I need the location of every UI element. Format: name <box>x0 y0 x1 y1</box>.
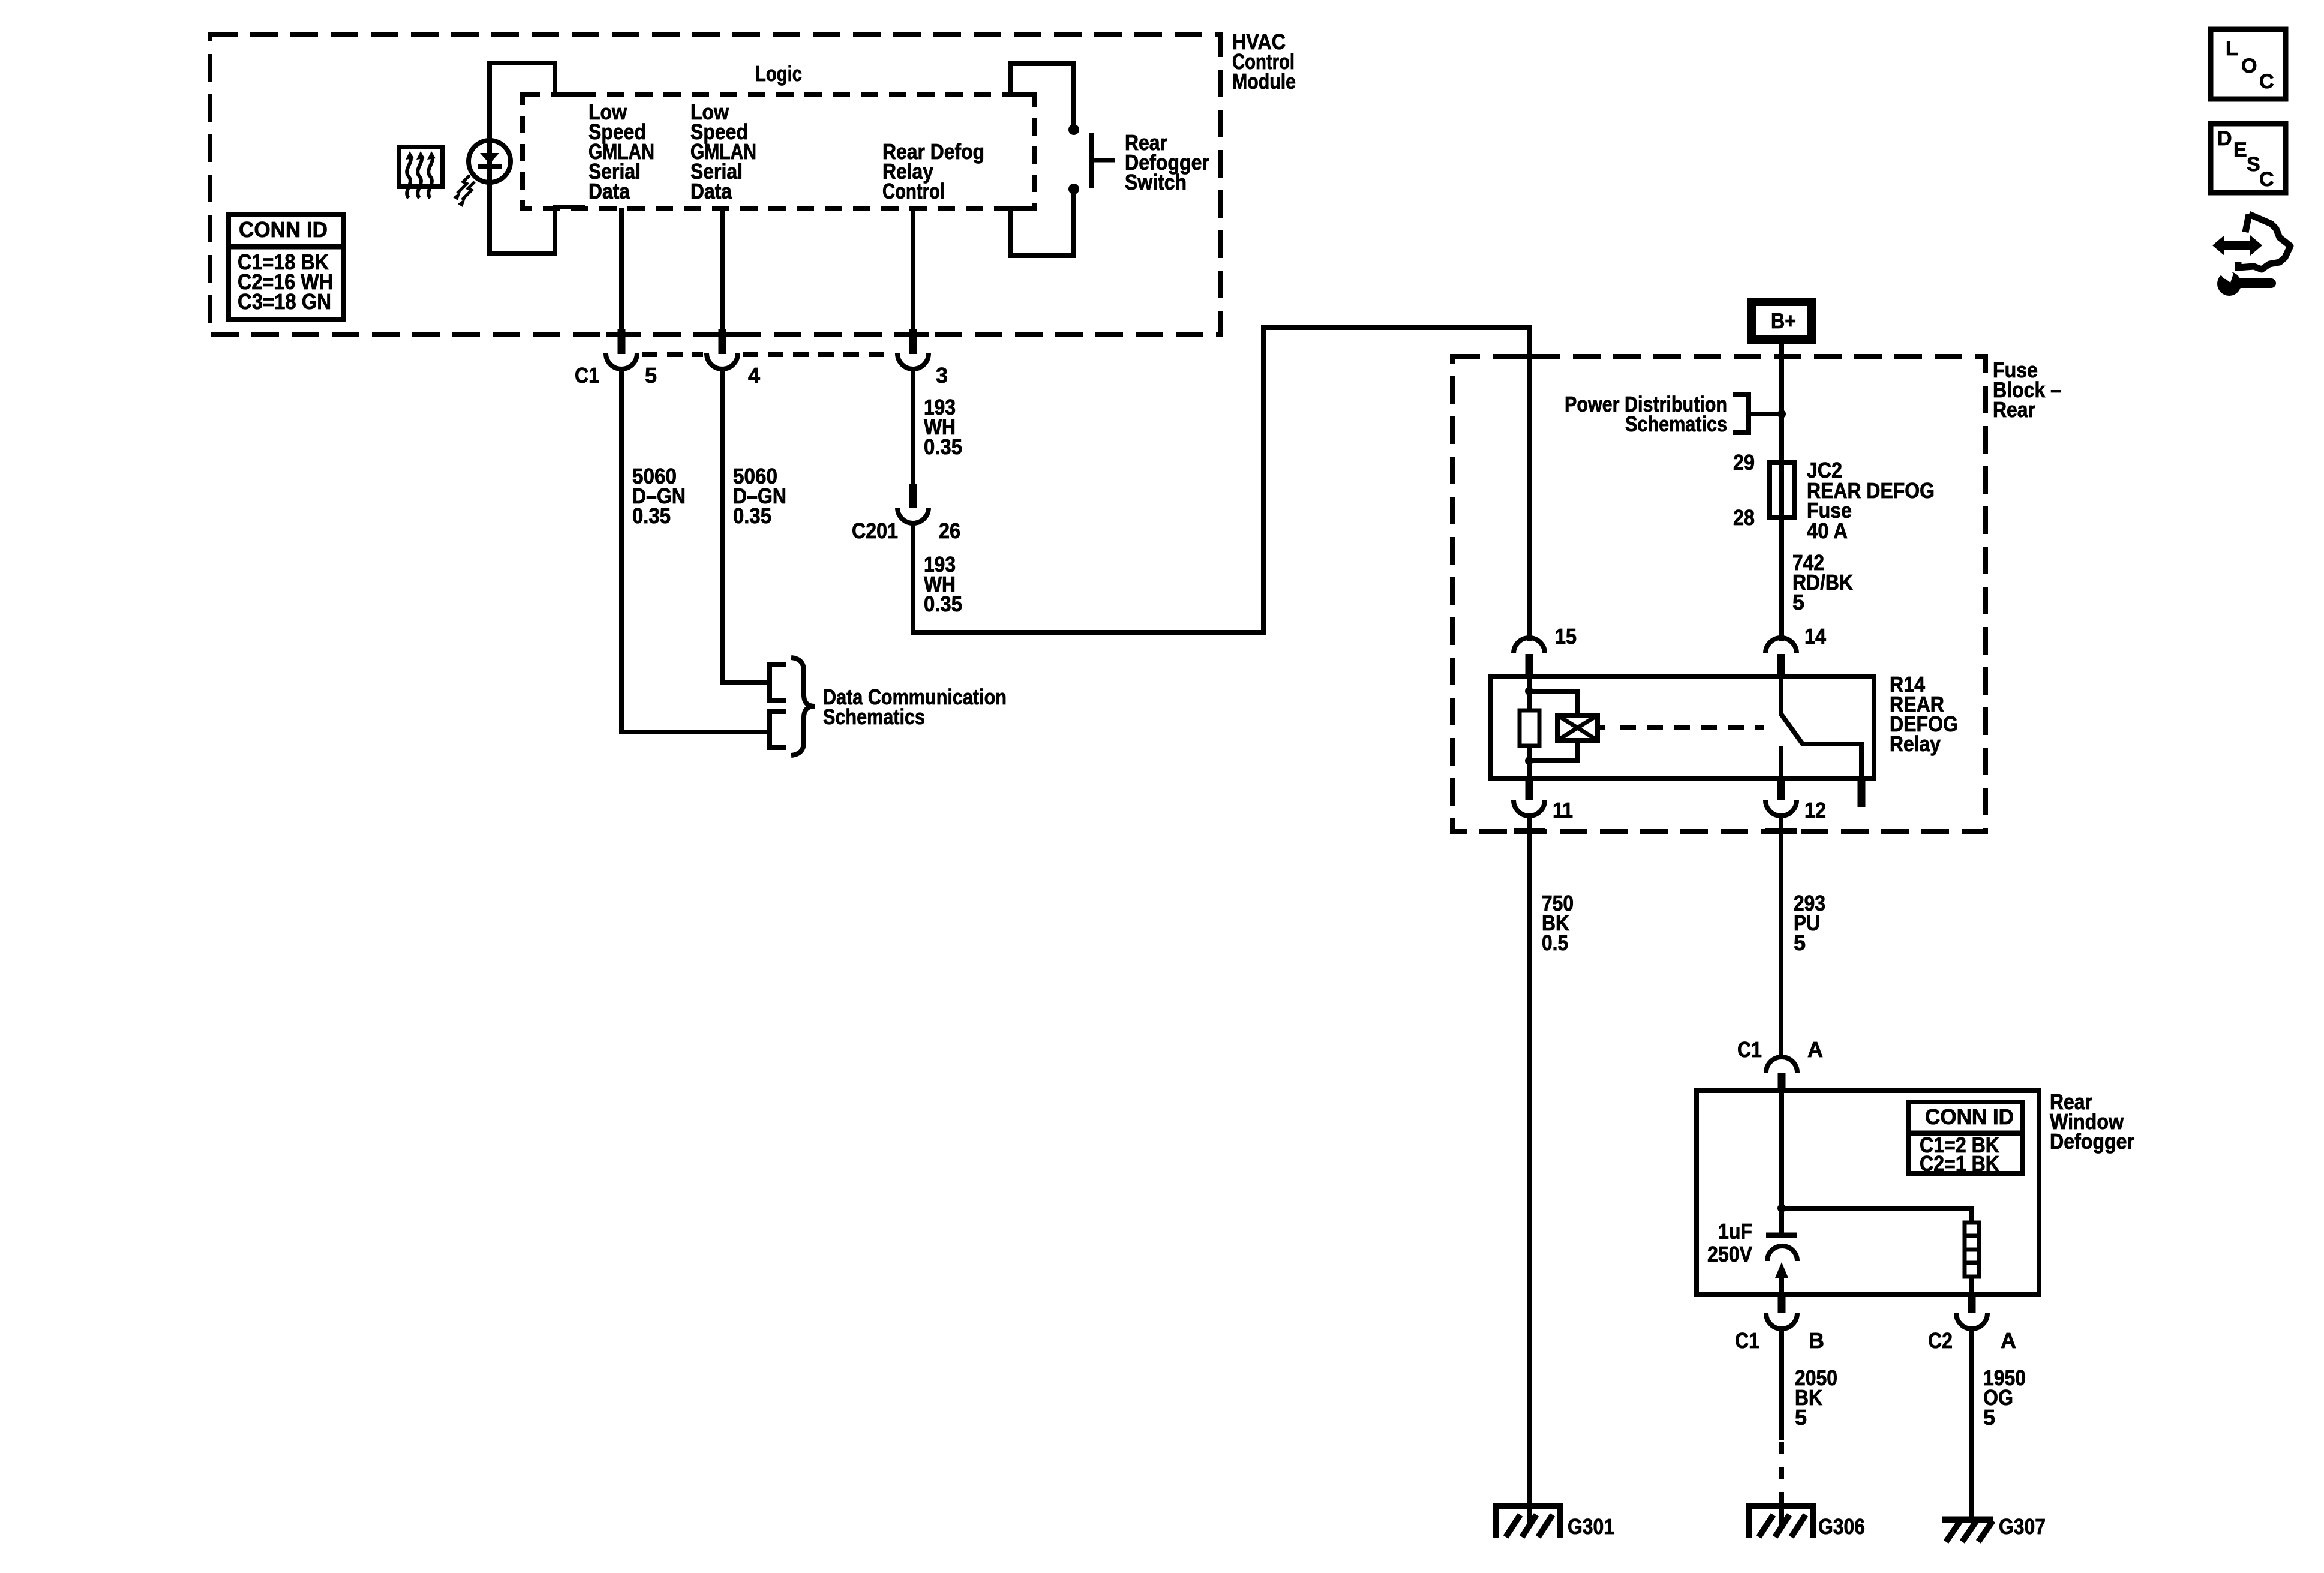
svg-text:12: 12 <box>1804 798 1826 822</box>
svg-text:C3=18 GN: C3=18 GN <box>238 289 331 314</box>
svg-text:G306: G306 <box>1818 1514 1865 1539</box>
svg-text:28: 28 <box>1733 505 1755 530</box>
svg-text:C1: C1 <box>1737 1037 1762 1062</box>
svg-text:Data: Data <box>588 179 630 203</box>
svg-text:Relay: Relay <box>1890 731 1941 756</box>
svg-text:A: A <box>2001 1328 2016 1353</box>
svg-text:CONN ID: CONN ID <box>239 217 328 242</box>
svg-text:15: 15 <box>1555 624 1577 649</box>
svg-text:11: 11 <box>1553 798 1573 822</box>
svg-text:O: O <box>2241 55 2257 77</box>
svg-text:A: A <box>1807 1037 1823 1062</box>
svg-text:250V: 250V <box>1707 1242 1752 1266</box>
svg-text:26: 26 <box>939 518 960 543</box>
svg-text:C2: C2 <box>1928 1328 1953 1353</box>
svg-text:14: 14 <box>1804 624 1826 649</box>
svg-text:Rear: Rear <box>1993 397 2035 422</box>
svg-text:Data: Data <box>690 179 732 203</box>
svg-text:C: C <box>2259 70 2274 93</box>
svg-text:5: 5 <box>645 363 657 388</box>
svg-text:5: 5 <box>1983 1405 1995 1430</box>
svg-text:Control: Control <box>882 179 945 203</box>
svg-text:0.35: 0.35 <box>632 503 671 528</box>
svg-text:Switch: Switch <box>1125 170 1187 194</box>
svg-text:C201: C201 <box>852 518 898 543</box>
svg-text:B: B <box>1809 1328 1824 1353</box>
svg-text:L: L <box>2226 37 2238 60</box>
svg-text:0.5: 0.5 <box>1542 930 1568 955</box>
svg-text:5: 5 <box>1794 930 1806 955</box>
svg-text:5: 5 <box>1795 1405 1807 1430</box>
svg-text:Schematics: Schematics <box>823 704 925 729</box>
svg-text:3: 3 <box>936 363 948 388</box>
svg-text:Module: Module <box>1232 69 1296 94</box>
svg-text:C1: C1 <box>575 363 599 388</box>
svg-text:S: S <box>2247 153 2260 176</box>
svg-text:B+: B+ <box>1771 308 1796 333</box>
svg-text:Logic: Logic <box>755 61 802 86</box>
svg-text:29: 29 <box>1733 450 1755 475</box>
svg-text:5: 5 <box>1792 590 1804 614</box>
svg-text:4: 4 <box>748 363 760 388</box>
svg-text:C2=1 BK: C2=1 BK <box>1920 1151 1999 1176</box>
svg-text:E: E <box>2233 139 2247 161</box>
svg-text:Schematics: Schematics <box>1625 412 1727 436</box>
svg-text:1uF: 1uF <box>1718 1219 1752 1244</box>
svg-text:C1: C1 <box>1735 1328 1759 1353</box>
svg-text:D: D <box>2217 127 2232 150</box>
svg-text:0.35: 0.35 <box>924 592 962 616</box>
svg-text:40 A: 40 A <box>1807 518 1848 543</box>
svg-text:G307: G307 <box>1999 1514 2046 1539</box>
svg-text:C: C <box>2259 168 2274 191</box>
svg-text:CONN ID: CONN ID <box>1925 1104 2014 1129</box>
svg-text:G301: G301 <box>1568 1514 1614 1539</box>
svg-text:Defogger: Defogger <box>2050 1129 2134 1154</box>
svg-text:0.35: 0.35 <box>733 503 771 528</box>
svg-text:0.35: 0.35 <box>924 434 962 459</box>
